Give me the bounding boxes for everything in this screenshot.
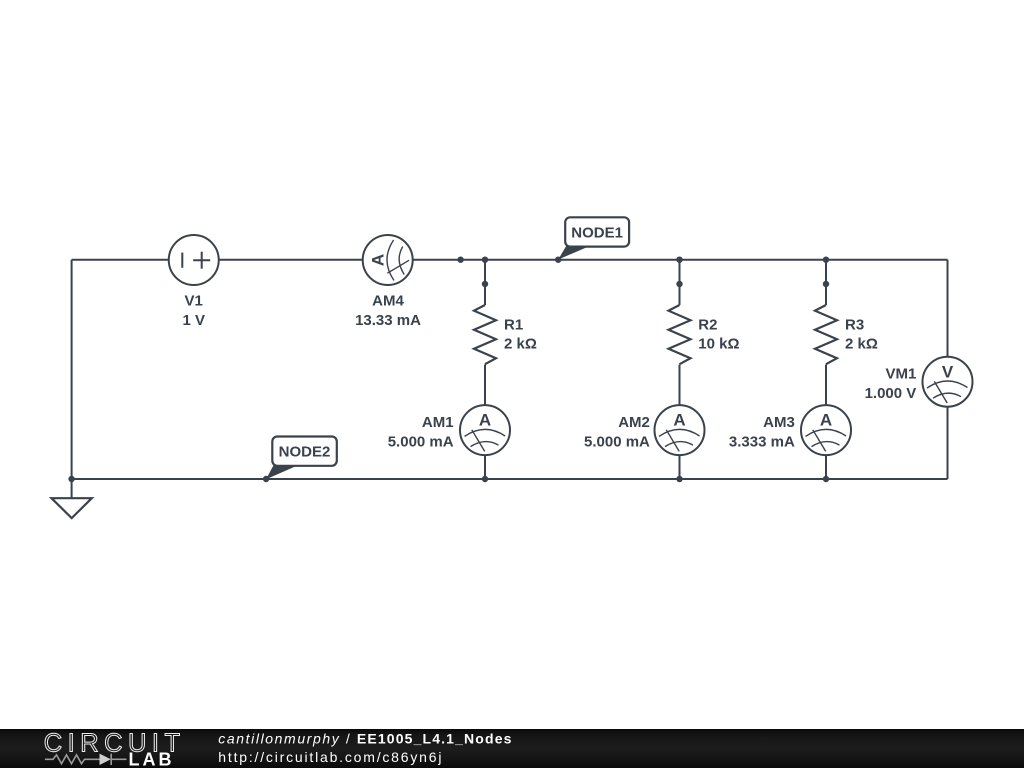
wire R2 top lead [679, 260, 681, 305]
svg-text:1.000 V: 1.000 V [865, 385, 917, 402]
value label 5.000 mA [388, 433, 454, 450]
value label 2 kΩ [504, 335, 537, 352]
wire AM3 to bottom [825, 455, 827, 479]
wire left vertical [71, 260, 73, 479]
junction dot AM2 bottom [676, 476, 682, 482]
footer title line [218, 730, 512, 746]
CircuitLab logo wordmark CIRCUIT [44, 730, 186, 758]
wire V1 to AM4 [219, 259, 363, 261]
svg-text:2 kΩ: 2 kΩ [504, 335, 537, 352]
wire ground stub [71, 479, 73, 498]
svg-text:13.33 mA: 13.33 mA [355, 312, 421, 329]
svg-text:A: A [820, 411, 832, 430]
junction dot R3 top [823, 257, 829, 263]
svg-text:NODE2: NODE2 [279, 444, 331, 461]
svg-text:10 kΩ: 10 kΩ [698, 335, 739, 352]
svg-text:A: A [368, 254, 387, 266]
wire R2 to AM2 [679, 365, 681, 406]
junction dot R2 lead [676, 281, 682, 287]
label V1 [185, 292, 203, 309]
svg-text:cantillonmurphy / EE1005_L4.1_: cantillonmurphy / EE1005_L4.1_Nodes [218, 730, 512, 746]
svg-text:AM1: AM1 [422, 414, 454, 431]
value label 2 kΩ [845, 335, 878, 352]
value label 3.333 mA [729, 433, 795, 450]
label R3 [845, 316, 864, 333]
wire bottom (NODE2 net) [72, 478, 948, 480]
value label 1.000 V [865, 385, 917, 402]
label VM1 [885, 366, 916, 383]
junction dot R3 lead [823, 281, 829, 287]
svg-text:LAB: LAB [129, 750, 175, 768]
wire R1 top lead [484, 260, 486, 305]
ammeter AM2 [655, 405, 705, 455]
resistor R2 [669, 305, 691, 364]
junction dot bottom-left [68, 476, 74, 482]
footer url line [218, 749, 443, 765]
resistor R1 [474, 305, 496, 364]
svg-text:1 V: 1 V [182, 312, 205, 329]
label R2 [698, 316, 717, 333]
footer bar [0, 729, 1024, 768]
svg-text:A: A [673, 411, 685, 430]
svg-text:R2: R2 [698, 316, 717, 333]
voltage source V1 [169, 235, 219, 285]
wire right vertical upper (to VM1) [947, 260, 949, 357]
value label 10 kΩ [698, 335, 739, 352]
value label 1 V [182, 312, 205, 329]
junction dot R1 top [482, 257, 488, 263]
node label NODE1 [558, 217, 629, 259]
svg-text:R1: R1 [504, 316, 523, 333]
value label 13.33 mA [355, 312, 421, 329]
svg-text:V: V [942, 362, 954, 381]
wire R3 top lead [825, 260, 827, 305]
label AM3 [763, 414, 795, 431]
value label 5.000 mA [584, 433, 650, 450]
ammeter AM1 [460, 405, 510, 455]
wire top-left: V1 left terminal to left corner [72, 259, 169, 261]
resistor R3 [815, 305, 837, 364]
wire AM2 to bottom [679, 455, 681, 479]
svg-text:AM3: AM3 [763, 414, 795, 431]
wire R3 to AM3 [825, 365, 827, 406]
junction dot top wire left of R1 [457, 257, 463, 263]
svg-text:http://circuitlab.com/c86yn6j: http://circuitlab.com/c86yn6j [218, 749, 443, 765]
svg-text:A: A [479, 411, 491, 430]
svg-text:5.000 mA: 5.000 mA [584, 433, 650, 450]
ammeter AM3 [801, 405, 851, 455]
wire right vertical lower (VM1 to bottom) [947, 407, 949, 479]
label R1 [504, 316, 523, 333]
junction dot AM3 bottom [823, 476, 829, 482]
label AM1 [422, 414, 454, 431]
label AM2 [618, 414, 650, 431]
voltmeter VM1 [923, 357, 973, 407]
svg-text:NODE1: NODE1 [571, 224, 623, 241]
svg-text:3.333 mA: 3.333 mA [729, 433, 795, 450]
wire AM4 to right corner (NODE1 net) [413, 259, 948, 261]
ground symbol [52, 498, 92, 518]
svg-text:R3: R3 [845, 316, 864, 333]
junction dot NODE2 pointer [263, 476, 269, 482]
label AM4 [372, 292, 404, 309]
logo wordmark LAB [129, 750, 175, 768]
svg-text:5.000 mA: 5.000 mA [388, 433, 454, 450]
wire AM1 to bottom [484, 455, 486, 479]
svg-text:V1: V1 [185, 292, 203, 309]
junction dot R2 top [676, 257, 682, 263]
junction dot NODE1 pointer [555, 257, 561, 263]
ammeter AM4 [363, 235, 413, 285]
svg-text:VM1: VM1 [885, 366, 916, 383]
junction dot R1 lead [482, 281, 488, 287]
junction dot AM1 bottom [482, 476, 488, 482]
svg-text:AM2: AM2 [618, 414, 650, 431]
node label NODE2 [266, 437, 337, 480]
wire R1 to AM1 [484, 365, 486, 406]
svg-text:AM4: AM4 [372, 292, 404, 309]
logo resistor-diode underline [45, 754, 127, 765]
svg-text:2 kΩ: 2 kΩ [845, 335, 878, 352]
